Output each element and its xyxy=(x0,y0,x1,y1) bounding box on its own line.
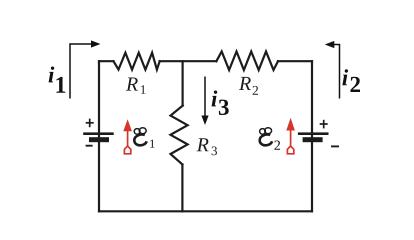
emf arrow E1 (red, pointing up, open tail square) xyxy=(123,119,132,154)
label E2 (script emf symbol with subscript 2) xyxy=(260,128,273,146)
wire: top-left segment (corner to R1) xyxy=(99,60,114,62)
label R2 xyxy=(239,77,258,95)
label i1 xyxy=(49,66,66,92)
resistor R3 xyxy=(171,106,188,165)
label i2 xyxy=(342,69,360,92)
battery E1 minus sign xyxy=(86,145,93,147)
battery E1 plus sign xyxy=(86,119,94,128)
battery E2 long plate (+ terminal) xyxy=(298,132,329,135)
battery E2 short thick plate (- terminal) xyxy=(303,137,323,142)
battery E1 short thick plate (- terminal) xyxy=(89,137,109,142)
battery E1 long plate (+ terminal) xyxy=(83,132,114,135)
current arrow i1 (up and right with arrowhead) xyxy=(70,40,101,98)
battery E2 plus sign xyxy=(320,120,328,129)
node A: top junction of middle branch xyxy=(182,61,184,105)
label E1 (script emf symbol with subscript 1) xyxy=(134,128,146,146)
wire: bottom segment xyxy=(99,210,312,212)
current arrow i2 (up and left with arrowhead) xyxy=(325,41,340,99)
wire: top-middle segment (R1 to R2 through node A) xyxy=(160,60,217,62)
label R3 xyxy=(197,138,217,155)
label i3 xyxy=(212,90,229,115)
emf arrow E2 (red, pointing up, open tail square) xyxy=(286,118,295,154)
wire: middle branch lower (R3 to bottom node B) xyxy=(181,165,183,212)
resistor R1 xyxy=(114,53,160,70)
wire: top-right segment (R2 to corner) xyxy=(278,60,312,62)
label R1 xyxy=(126,78,146,94)
resistor R2 xyxy=(216,52,278,71)
wire: right side (corner down through battery E2 to bottom corner) xyxy=(311,61,313,211)
battery E2 minus sign xyxy=(331,145,339,147)
current arrow i3 (downward beside R3) xyxy=(201,77,208,126)
wire: left side (corner down through battery E1 to bottom corner) xyxy=(98,61,100,211)
